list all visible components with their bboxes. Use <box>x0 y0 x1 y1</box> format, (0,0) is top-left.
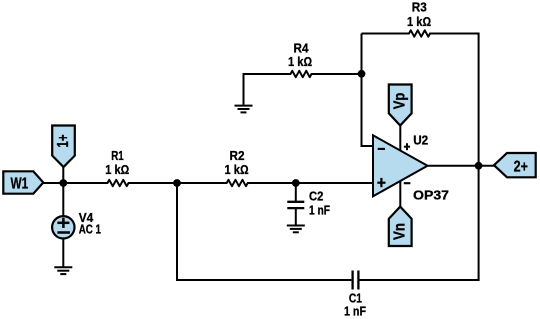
wire: V4 bottom down to ground <box>62 239 64 267</box>
ground: below V4 <box>54 267 72 274</box>
svg-text:1 kΩ: 1 kΩ <box>105 162 129 177</box>
node C: junction dot where C2 taps the rail <box>292 179 300 187</box>
svg-text:1 nF: 1 nF <box>309 203 330 218</box>
terminal 2+ <box>494 153 536 177</box>
wire: Vn pin <box>399 180 401 207</box>
capacitor C2 <box>295 183 297 201</box>
op-amp minus input mark <box>378 148 385 150</box>
op-amp V+ polarity mark <box>404 143 410 150</box>
node B: junction dot at bottom branch takeoff <box>173 179 181 187</box>
resistor R4 <box>291 69 311 80</box>
wire: op-amp output to 2+ terminal <box>428 165 495 167</box>
svg-text:1 nF: 1 nF <box>344 304 366 319</box>
svg-text:R3: R3 <box>412 0 427 15</box>
terminal W1 <box>3 171 43 193</box>
terminal Vn <box>389 207 412 246</box>
node D: junction dot R4 / R3 vertical <box>358 70 366 78</box>
resistor R2 <box>227 178 247 189</box>
wire: 1+ terminal stub down to input node <box>62 167 64 183</box>
svg-text:1 kΩ: 1 kΩ <box>407 14 431 29</box>
wire: left branch down from node B to bottom rail and right to C1 <box>177 183 351 280</box>
wire: input node down to V4 top <box>62 183 64 216</box>
svg-text:U2: U2 <box>413 133 428 148</box>
svg-text:W1: W1 <box>11 176 29 193</box>
svg-text:2+: 2+ <box>514 158 528 175</box>
node E: output junction dot <box>475 162 483 170</box>
wire: inverting-input branch, from R3/R4 node down then to op-amp minus <box>362 34 374 147</box>
terminal 1+ <box>52 126 75 168</box>
svg-text:C2: C2 <box>309 189 323 204</box>
voltage source V4 <box>52 216 74 238</box>
wire: C1 right to right vertical rail up to output junction <box>359 166 478 280</box>
terminal Vp <box>389 85 412 126</box>
wire: main input rail from W1 to op-amp + input <box>43 182 373 184</box>
svg-text:R2: R2 <box>230 148 245 163</box>
svg-text:Vn: Vn <box>392 223 409 240</box>
resistor R1 <box>108 178 128 189</box>
node A: input node junction dot <box>59 179 67 187</box>
ground: left of R4 <box>235 106 253 113</box>
ground: below C2 <box>287 226 305 233</box>
wire: Vp pin <box>399 126 401 152</box>
svg-text:1 kΩ: 1 kΩ <box>288 54 312 69</box>
wire: R3 top feedback run <box>362 34 479 167</box>
op-amp V- polarity mark <box>404 182 411 184</box>
svg-text:AC 1: AC 1 <box>79 222 101 237</box>
svg-text:1+: 1+ <box>55 135 72 148</box>
op-amp U2 (OP37) triangle <box>373 135 428 196</box>
capacitor C1 <box>353 271 359 290</box>
svg-text:1 kΩ: 1 kΩ <box>225 162 249 177</box>
svg-text:Vp: Vp <box>392 93 409 110</box>
op-amp plus input mark <box>377 178 385 187</box>
wire: R4 ground stub <box>244 74 362 105</box>
resistor R3 <box>409 28 429 39</box>
svg-text:OP37: OP37 <box>413 187 449 202</box>
svg-text:R1: R1 <box>111 148 124 163</box>
